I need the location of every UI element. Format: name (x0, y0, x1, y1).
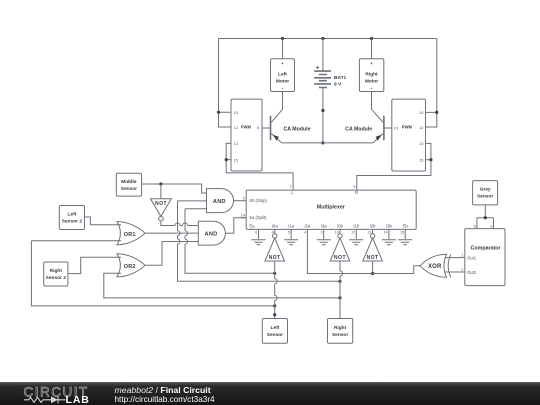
svg-text:+: + (316, 66, 320, 72)
IC comparator (465, 229, 505, 286)
svg-text:I3b: I3b (386, 224, 392, 229)
node rail junction right motor (370, 37, 373, 40)
svg-text:CA Module: CA Module (284, 126, 311, 132)
ground I3a (317, 229, 331, 244)
svg-text:14: 14 (384, 230, 388, 234)
wire NOT1 input stub (160, 184, 162, 199)
svg-text:Sensor: Sensor (121, 186, 137, 192)
pin number 4 I2a (304, 230, 306, 234)
pin number 14 I3b (384, 230, 388, 234)
junction NOT1 input tap (159, 182, 162, 185)
gate NOT-b under I0b (330, 229, 350, 261)
svg-text:Left: Left (68, 212, 77, 218)
wire comparator Out2 to XOR input2 (445, 271, 465, 273)
svg-text:5: 5 (288, 230, 290, 234)
wire battery bottom to emitter row (322, 88, 324, 143)
sensor box Middle Sensor (116, 173, 141, 196)
pin number 15 PWM1 (234, 158, 239, 163)
svg-text:Motor: Motor (276, 79, 289, 85)
svg-text:NOT: NOT (334, 255, 346, 261)
ground Eb (398, 229, 412, 244)
gate XOR (420, 254, 451, 277)
pin label Out2 (467, 270, 477, 275)
wire battery top (322, 39, 324, 72)
svg-text:9 V: 9 V (334, 81, 342, 87)
gate AND1 (207, 189, 234, 213)
svg-text:Sensor: Sensor (477, 194, 493, 200)
svg-text:AND: AND (213, 199, 226, 205)
pin label Sa (Split) (249, 215, 267, 220)
pin label I2b (370, 224, 376, 229)
wire NOT-b down to Right Sensor with hop (340, 261, 343, 319)
pin label I3b (386, 224, 392, 229)
pin number 13 PWM1 (234, 141, 239, 146)
svg-text:I3a: I3a (321, 224, 327, 229)
pin label Ea (249, 224, 255, 229)
gate OR2 (117, 254, 145, 277)
wire PWM1 pins 13/15 to mux pin7 (226, 143, 293, 190)
motor M2 Right Motor (359, 59, 383, 92)
pin number 5 PWM1 (257, 125, 260, 130)
IC PWM2 right (392, 99, 426, 171)
junction pin10 left (217, 111, 220, 114)
svg-text:I0b: I0b (337, 224, 343, 229)
svg-text:I1a: I1a (288, 224, 294, 229)
wire right sensor2 to OR2 input1 (68, 257, 121, 273)
svg-text:PWM: PWM (241, 125, 251, 131)
wire left motor top (282, 39, 284, 59)
pin number 12 PWM1 (234, 125, 239, 130)
pin label S0 (Stop) (249, 198, 267, 203)
node battery bottom (321, 109, 324, 112)
IC PWM1 left (231, 99, 262, 171)
pin number 10 I0b (335, 230, 339, 234)
wire AND1 input2 horizontal (178, 200, 207, 202)
svg-text:OR1: OR1 (124, 232, 136, 238)
pin label I1b (353, 224, 359, 229)
svg-text:AND: AND (204, 232, 217, 238)
svg-text:S0 (Stop): S0 (Stop) (249, 198, 267, 203)
wire vertical A AND1in2 to NOT-b net with hops (178, 201, 341, 281)
wire right motor top (371, 39, 373, 59)
svg-text:10: 10 (335, 230, 339, 234)
svg-text:OR2: OR2 (124, 264, 136, 270)
wire top supply rail (219, 38, 437, 40)
pin number 13 I2b (367, 230, 371, 234)
pin number 6 Ea (255, 230, 257, 234)
junction vertical B at NOT-a (273, 272, 276, 275)
wire AND1 output to mux pin2 S0 (234, 200, 247, 202)
svg-text:Middle: Middle (121, 179, 137, 185)
svg-text:Sa (Split): Sa (Split) (249, 215, 267, 220)
junction NOT-c at XOR row (371, 272, 374, 275)
logo CircuitLab (24, 385, 90, 405)
svg-text:12: 12 (419, 125, 424, 130)
svg-text:R: R (355, 190, 358, 195)
svg-text:meabbot2 / Final Circuit: meabbot2 / Final Circuit (115, 385, 211, 395)
junction vertical A at NOT-b (338, 280, 341, 283)
wire AND2 output to mux pin14 Sa (225, 218, 246, 234)
svg-text:12: 12 (234, 125, 239, 130)
junction OR2 feedback at NOT-b (338, 296, 341, 299)
pin label I0b (337, 224, 343, 229)
svg-text:Eb: Eb (403, 224, 409, 229)
battery BAT1 (314, 66, 331, 88)
label CA Module left (284, 126, 311, 132)
svg-text:3: 3 (321, 230, 323, 234)
svg-text:6: 6 (255, 230, 257, 234)
pin label I1a (288, 224, 294, 229)
svg-text:Out1: Out1 (467, 255, 477, 260)
sensor box Right Sensor 2 (44, 262, 68, 286)
junction far-left net at NOT-a (273, 304, 276, 307)
svg-text:10: 10 (419, 110, 424, 115)
label CA Module right (345, 126, 372, 132)
pin label L (291, 190, 294, 195)
svg-text:Multiplexer: Multiplexer (317, 205, 345, 211)
svg-text:15: 15 (419, 158, 424, 163)
svg-text:BAT1: BAT1 (334, 75, 347, 81)
pin number 5 I1a (288, 230, 290, 234)
svg-text:Sensor: Sensor (267, 332, 283, 338)
pin number F1 PWM2 (394, 126, 399, 131)
wire mux pin Sa stub (241, 217, 246, 219)
pin label I2a (304, 224, 310, 229)
svg-text:10: 10 (234, 110, 239, 115)
transistor Q2 CA Module right (372, 109, 392, 143)
wire NOT-a down to Left Sensor with hops (275, 261, 278, 319)
svg-text:Sensor 2: Sensor 2 (46, 275, 67, 281)
gate NOT-c under I2b (363, 229, 383, 261)
svg-text:13: 13 (234, 141, 239, 146)
pin number 10 PWM1 (234, 110, 239, 115)
svg-text:NOT: NOT (155, 201, 167, 207)
footer text meabbot2 / Final Circuit (115, 385, 211, 395)
wire OR1 input2 from left vertical (31, 240, 121, 242)
svg-text:Out2: Out2 (467, 270, 477, 275)
svg-text:NOT: NOT (269, 255, 281, 261)
ground Ea (252, 229, 266, 244)
pin number 14 (241, 213, 246, 218)
junction pin15 left (225, 158, 228, 161)
pin label Eb (403, 224, 409, 229)
pin number 9 (353, 184, 356, 189)
wire grey sensor to comparator pins 5/3 (477, 205, 494, 229)
junction emitter row center (321, 141, 324, 144)
IC multiplexer (246, 190, 416, 229)
pin number 1 (461, 253, 464, 258)
svg-text:http://circuitlab.com/ct3a3r4: http://circuitlab.com/ct3a3r4 (115, 395, 216, 404)
sensor box Grey Sensor (473, 181, 498, 205)
pin number 15 Eb (400, 230, 404, 234)
svg-text:13: 13 (367, 230, 371, 234)
gate OR1 (117, 222, 145, 245)
wire right rail drop to PWM2 pins 10/12 (426, 39, 437, 128)
transistor Q1 CA Module left (262, 109, 283, 143)
node left sensor pin (273, 313, 276, 316)
wire OR2 input2 feedback from NOT-b net (104, 273, 340, 298)
svg-text:I2a: I2a (304, 224, 310, 229)
svg-text:4: 4 (304, 230, 306, 234)
junction grey sensor bracket (484, 216, 487, 219)
pin number 4 I0a (272, 230, 274, 234)
pin number 2 (461, 267, 464, 272)
sensor box Right Sensor (328, 319, 353, 344)
pin number 3 comparator (490, 224, 493, 229)
svg-text:I1b: I1b (353, 224, 359, 229)
gate NOT1 (151, 199, 172, 221)
wire NOT-c output stub (372, 261, 374, 274)
pin number 12 I1b (351, 230, 355, 234)
wire NOT1 output to AND2 input1 with hops (161, 221, 198, 226)
wire emitter row (282, 142, 373, 144)
value label BAT1 9V (334, 75, 347, 87)
wire PWM2 pins 13/15 to mux pin9 (357, 143, 431, 190)
sensor box Left Sensor (262, 319, 287, 344)
pin number 13 PWM2 (419, 141, 424, 146)
wire right motor bottom to Q2 collector (371, 92, 373, 110)
wire mux I2a to XOR output row (307, 229, 420, 273)
pin label Out1 (467, 255, 477, 260)
pin label I0a (272, 224, 278, 229)
node rail junction left motor (281, 37, 284, 40)
wire AND1 input3 horizontal (185, 208, 207, 210)
footer bar (0, 382, 540, 405)
pin number 2 (243, 196, 246, 201)
wire OR2 output to AND2 input3 (145, 242, 198, 266)
pin number 12 PWM2 (419, 125, 424, 130)
pin number 15 PWM2 (419, 158, 424, 163)
svg-text:13: 13 (419, 141, 424, 146)
wire vertical B AND1in3 to NOT-a net with hops (185, 209, 275, 273)
svg-text:Comparator: Comparator (471, 246, 502, 252)
ground I3b (382, 229, 396, 244)
svg-text:15: 15 (400, 230, 404, 234)
wire far-left net OR1in2 to NOT-a net (31, 241, 274, 306)
junction pin15 right (429, 158, 432, 161)
svg-text:14: 14 (241, 213, 246, 218)
pin number 7 (290, 184, 293, 189)
motor M1 Left Motor (271, 59, 295, 92)
wire left sensor2 to OR1 input1 (85, 217, 122, 225)
svg-text:Grey: Grey (480, 187, 491, 193)
svg-text:Left: Left (271, 325, 280, 331)
footer url (115, 395, 216, 404)
svg-text:NOT: NOT (367, 255, 379, 261)
pin label I3a (321, 224, 327, 229)
svg-text:F1: F1 (394, 126, 399, 131)
svg-text:Right: Right (50, 268, 63, 274)
pin label R (355, 190, 358, 195)
node rail junction battery (321, 37, 324, 40)
svg-text:LAB: LAB (66, 394, 90, 405)
pin number 10 PWM2 (419, 110, 424, 115)
gate NOT-a under I0a (265, 229, 285, 261)
wire left motor bottom to Q1 collector (282, 92, 284, 110)
svg-text:Right: Right (334, 325, 347, 331)
svg-text:PWM: PWM (402, 125, 412, 131)
svg-text:Ea: Ea (249, 224, 255, 229)
svg-text:XOR: XOR (428, 264, 442, 270)
wire OR1 output to AND2 input2 (145, 232, 198, 234)
pin number 5 comparator (474, 224, 477, 229)
svg-text:Right: Right (365, 72, 378, 78)
svg-text:I0a: I0a (272, 224, 278, 229)
svg-text:I2b: I2b (370, 224, 376, 229)
wire comparator Out1 to XOR input1 (445, 257, 465, 259)
wire middle sensor to AND1 input1 (142, 184, 207, 193)
svg-text:12: 12 (351, 230, 355, 234)
pin number 3 I3a (321, 230, 323, 234)
svg-text:Sensor 2: Sensor 2 (62, 219, 83, 225)
ground I1b (349, 229, 363, 244)
svg-text:Sensor: Sensor (332, 332, 348, 338)
svg-text:Left: Left (278, 72, 287, 78)
svg-text:15: 15 (234, 158, 239, 163)
sensor box Left Sensor 2 (59, 206, 84, 230)
svg-text:CA Module: CA Module (345, 126, 372, 132)
ground I1a (284, 229, 298, 244)
svg-text:Motor: Motor (365, 79, 378, 85)
wire left rail drop to PWM1 pins 10/12 (219, 39, 232, 128)
gate AND2 (198, 221, 225, 245)
junction pin10 right (435, 111, 438, 114)
